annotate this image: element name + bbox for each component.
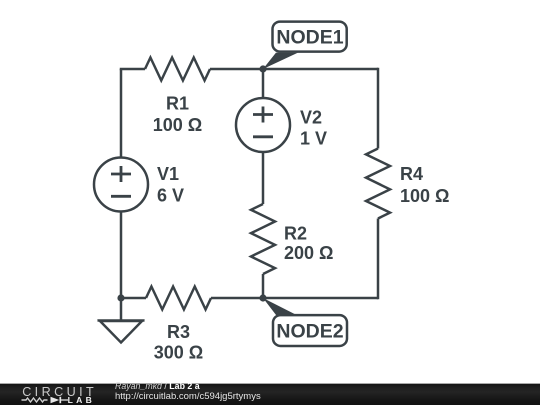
NODE2 callout box	[273, 315, 347, 346]
wire: V1 bottom to ground junction	[120, 212, 123, 299]
wire: left branch, corner down to V1 top	[120, 69, 123, 158]
node NODE2 junction dot	[259, 294, 266, 301]
V1 plus sign	[111, 166, 131, 182]
wire: top-left corner to R1 left lead	[121, 69, 145, 70]
svg-text:6 V: 6 V	[157, 186, 184, 206]
wire: right branch top, corner down to R4 top	[377, 68, 380, 149]
wire: R1 right lead to NODE1 junction and on to top-right corner	[210, 68, 378, 71]
footer bar	[0, 383, 540, 405]
V1 minus sign	[111, 195, 131, 198]
svg-text:1 V: 1 V	[300, 129, 327, 149]
svg-text:R1: R1	[166, 94, 189, 114]
svg-text:R2: R2	[284, 224, 307, 244]
wire: R4 bottom to bottom-right corner	[377, 219, 380, 300]
svg-text:200 Ω: 200 Ω	[284, 243, 333, 263]
svg-text:300 Ω: 300 Ω	[154, 343, 203, 363]
wire: R3 right lead to NODE2 junction and to bottom-right corner	[211, 297, 378, 300]
footer title line	[115, 382, 200, 391]
wire: NODE1 junction down to V2 top	[262, 69, 265, 99]
node: ground junction dot	[117, 294, 124, 301]
svg-text:NODE2: NODE2	[276, 321, 343, 343]
wire: ground stem	[120, 298, 123, 321]
wire: V2 bottom to R2 top	[262, 152, 265, 205]
resistor R4	[366, 149, 390, 219]
svg-text:R3: R3	[167, 322, 190, 342]
resistor R3	[146, 287, 211, 310]
NODE2 callout pointer	[263, 298, 299, 316]
NODE1 callout box	[273, 22, 347, 52]
voltage source V2	[236, 98, 290, 152]
resistor R1	[145, 58, 210, 81]
svg-text:100 Ω: 100 Ω	[153, 115, 202, 135]
svg-text:LAB: LAB	[68, 395, 96, 405]
resistor R2	[251, 204, 275, 274]
NODE1 callout pointer	[263, 53, 298, 69]
wire: ground junction to R3 left lead	[121, 297, 146, 300]
svg-text:100 Ω: 100 Ω	[400, 186, 449, 206]
svg-text:R4: R4	[400, 164, 423, 184]
node NODE1 junction dot	[259, 65, 266, 72]
footer url line	[115, 392, 261, 402]
svg-text:NODE1: NODE1	[276, 27, 343, 49]
CircuitLab logo	[0, 383, 110, 405]
svg-text:V1: V1	[157, 164, 179, 184]
voltage source V1	[94, 158, 148, 212]
V2 plus sign	[253, 107, 273, 123]
wire: R2 bottom to NODE2 junction	[262, 274, 265, 298]
V2 minus sign	[253, 135, 273, 138]
svg-text:V2: V2	[300, 108, 322, 128]
ground symbol	[98, 321, 145, 343]
